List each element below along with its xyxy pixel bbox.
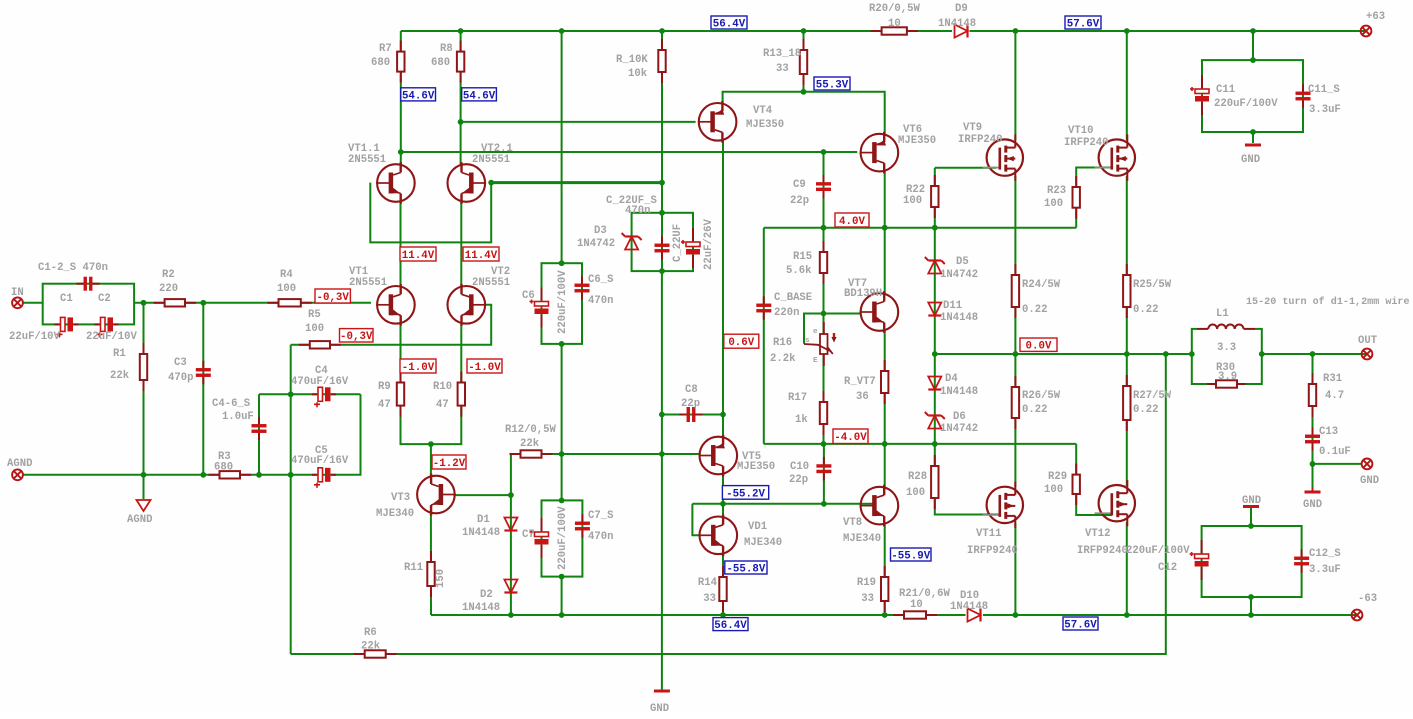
transistor VT3 [417, 474, 456, 516]
svg-text:R9: R9 [378, 381, 391, 393]
svg-text:R11: R11 [404, 562, 423, 574]
svg-text:33: 33 [703, 593, 716, 605]
diode D9 [955, 25, 968, 38]
svg-text:33: 33 [861, 593, 874, 605]
svg-text:VT3: VT3 [391, 492, 410, 504]
svg-text:C12_S: C12_S [1309, 548, 1341, 560]
transistor VT8 [860, 485, 899, 527]
wire R28 chain to VT11 gate [935, 444, 1001, 515]
svg-text:GND: GND [650, 703, 669, 714]
wire VT7 base [824, 313, 862, 315]
transistor VT2 [448, 284, 487, 326]
capacitor C9 [816, 175, 831, 199]
wire VD1 base jog [692, 504, 700, 536]
svg-text:C2: C2 [98, 293, 111, 305]
resistor R19 [881, 566, 888, 612]
svg-text:R5: R5 [308, 309, 321, 321]
svg-text:3.3uF: 3.3uF [1309, 104, 1341, 116]
svg-text:470n: 470n [588, 531, 613, 543]
svg-text:C11_S: C11_S [1308, 84, 1340, 96]
svg-text:R15: R15 [793, 251, 812, 263]
svg-text:470uF/16V: 470uF/16V [291, 376, 349, 388]
svg-text:2N5551: 2N5551 [349, 277, 387, 289]
voltage label -1.2V [432, 455, 466, 470]
connector OUT [1362, 349, 1373, 360]
svg-text:47: 47 [436, 399, 449, 411]
svg-text:56.4V: 56.4V [714, 620, 747, 632]
svg-text:R27/5W: R27/5W [1133, 390, 1172, 402]
svg-text:C10: C10 [790, 461, 809, 473]
wire R8 to VT4 base [461, 121, 696, 123]
resistor R10 [458, 372, 465, 417]
voltage label 56.4V [713, 618, 748, 632]
ground AGND arrow [137, 500, 151, 511]
svg-text:E: E [813, 357, 818, 365]
wire GND spur [1313, 463, 1362, 465]
wire VT8 emitter R19 [884, 523, 886, 615]
voltage label 0.0V [1020, 338, 1057, 353]
resistor R9 [397, 372, 404, 417]
svg-text:22k: 22k [110, 370, 130, 382]
svg-text:220n: 220n [774, 307, 799, 319]
wire C1 C2 box [43, 284, 134, 325]
svg-text:MJE350: MJE350 [737, 461, 775, 473]
capacitor C_BASE [756, 296, 771, 320]
svg-text:AGND: AGND [7, 458, 32, 470]
svg-text:VD1: VD1 [748, 521, 767, 533]
svg-text:OUT: OUT [1358, 335, 1378, 347]
wire C5 branch [291, 394, 361, 475]
wire diode chain upper [934, 228, 936, 354]
wire VT9 gate [935, 167, 997, 169]
svg-text:22p: 22p [681, 398, 700, 410]
svg-text:22uF/26V: 22uF/26V [703, 218, 715, 270]
wire input line [23, 302, 43, 304]
capacitor C4 [312, 387, 336, 407]
voltage label -4.0V [833, 429, 868, 444]
svg-text:0.22: 0.22 [1133, 404, 1158, 416]
svg-text:D4: D4 [945, 373, 958, 385]
svg-text:MJE350: MJE350 [898, 135, 936, 147]
svg-text:C11: C11 [1216, 84, 1235, 96]
svg-text:3.3uF: 3.3uF [1309, 564, 1341, 576]
svg-text:MJE340: MJE340 [376, 508, 414, 520]
wire C_22UF center branch [661, 213, 663, 271]
wire R12 line to VT5 base [511, 453, 701, 455]
transistor VT1 [376, 284, 415, 326]
wire VD1 emitter R14 [722, 553, 724, 615]
svg-text:1N4148: 1N4148 [938, 18, 976, 30]
capacitor C7 [530, 518, 549, 558]
svg-text:R28: R28 [908, 471, 927, 483]
svg-text:GND: GND [1303, 499, 1322, 511]
svg-text:0.22: 0.22 [1133, 304, 1158, 316]
svg-text:5.6k: 5.6k [786, 265, 812, 277]
svg-text:-0,3V: -0,3V [316, 292, 349, 304]
svg-text:1k: 1k [795, 414, 808, 426]
svg-text:11.4V: 11.4V [465, 250, 498, 262]
wire VT12 to rail [1126, 522, 1128, 615]
svg-text:VT11: VT11 [976, 528, 1001, 540]
svg-text:100: 100 [1044, 198, 1063, 210]
svg-text:C6: C6 [522, 290, 535, 302]
svg-text:R25/5W: R25/5W [1133, 279, 1172, 291]
svg-text:680: 680 [371, 57, 390, 69]
capacitor C13 [1305, 427, 1320, 451]
wire VT4 VT6 emitters [723, 92, 885, 135]
wire GND long vertical [661, 271, 663, 690]
svg-text:VT10: VT10 [1068, 125, 1093, 137]
resistor R25 [1123, 264, 1130, 318]
svg-text:VT8: VT8 [843, 517, 862, 529]
wire C4-6_S branch [258, 394, 260, 475]
wire C7 box [542, 500, 583, 576]
wire mid output 0.0V rail [935, 353, 1367, 355]
wire -4.0V bias rail [764, 443, 1076, 445]
wire R9 R10 to VT3 [401, 322, 462, 444]
resistor R26 [1012, 376, 1019, 429]
wire C6 box [542, 263, 583, 344]
wire VT1.1 emitter to VT1 collector [400, 200, 402, 287]
resistor R4 [268, 299, 312, 306]
svg-text:47: 47 [378, 399, 391, 411]
wire C12 box to rail [1250, 597, 1252, 615]
wire center vertical to C6 [561, 31, 563, 263]
svg-text:10: 10 [910, 599, 923, 611]
svg-text:MJE340: MJE340 [843, 533, 881, 545]
voltage label -55.9V [891, 548, 932, 562]
wire VT10 drain [1126, 31, 1128, 140]
svg-text:0.0V: 0.0V [1026, 341, 1052, 353]
resistor R17 [820, 391, 827, 435]
inductor L1 [1197, 325, 1255, 329]
resistor R23 [1073, 176, 1080, 219]
wire R12 left leg [510, 454, 512, 495]
wire C4 branch [259, 393, 361, 395]
svg-text:R6: R6 [364, 627, 377, 639]
wire input to VT1 base [134, 302, 371, 304]
capacitor C4-6_S [252, 417, 267, 441]
svg-text:D5: D5 [956, 256, 969, 268]
wire C11 box [1202, 60, 1303, 132]
ground GND C11 [1245, 144, 1261, 147]
svg-text:22uF/10V: 22uF/10V [86, 331, 138, 343]
voltage label 55.3V [814, 77, 850, 91]
svg-text:100: 100 [277, 283, 296, 295]
svg-text:IRFP9240: IRFP9240 [1077, 545, 1128, 557]
wire VT7 collector [884, 228, 886, 295]
capacitor C2 [95, 317, 119, 337]
resistor R27 [1123, 375, 1130, 431]
svg-text:2N5551: 2N5551 [348, 154, 386, 166]
svg-text:1N4742: 1N4742 [940, 423, 978, 435]
wire VT9 source R24 [1014, 176, 1016, 354]
resistor R14 [719, 566, 726, 612]
svg-text:220uF/100V: 220uF/100V [557, 270, 569, 334]
wire R_10K chain [661, 31, 663, 213]
svg-text:GND: GND [1360, 475, 1379, 487]
wire R22 chain [934, 168, 936, 228]
svg-text:R2: R2 [162, 269, 175, 281]
svg-text:100: 100 [903, 195, 922, 207]
wire VT4 collector down to VT5 [722, 140, 724, 438]
resistor R_10K [658, 39, 665, 83]
svg-text:+63: +63 [1366, 11, 1385, 23]
capacitor C1 [55, 317, 79, 337]
voltage label -0,3V [315, 289, 350, 304]
svg-text:0.22: 0.22 [1022, 304, 1047, 316]
svg-text:-1.2V: -1.2V [433, 458, 466, 470]
svg-text:VT9: VT9 [963, 122, 982, 134]
wire VT11 to rail [1014, 523, 1016, 615]
wire +63 top rail [401, 30, 1366, 32]
wire C8 branch [662, 414, 723, 416]
svg-text:R12/0,5W: R12/0,5W [505, 424, 557, 436]
voltage label 4.0V [835, 213, 869, 228]
wire C_22UF box [632, 213, 693, 271]
svg-text:C9: C9 [793, 179, 806, 191]
svg-text:680: 680 [431, 57, 450, 69]
voltage label -55.2V [722, 486, 768, 501]
svg-text:R26/5W: R26/5W [1022, 390, 1061, 402]
svg-text:220uF/100V: 220uF/100V [1214, 98, 1278, 110]
svg-text:IRFP9240: IRFP9240 [967, 545, 1018, 557]
wire C12 box [1202, 526, 1302, 597]
svg-text:AGND: AGND [127, 514, 152, 526]
svg-text:R23: R23 [1047, 185, 1066, 197]
svg-text:22p: 22p [790, 195, 809, 207]
svg-text:MJE350: MJE350 [746, 119, 784, 131]
wire GND to C12 box [1250, 508, 1252, 526]
svg-text:10: 10 [888, 18, 901, 30]
resistor R7 [397, 41, 404, 83]
svg-text:54.6V: 54.6V [402, 90, 435, 102]
svg-text:R16: R16 [773, 337, 792, 349]
svg-text:220: 220 [159, 283, 178, 295]
svg-text:R13_18: R13_18 [763, 48, 801, 60]
svg-text:-55.9V: -55.9V [891, 550, 930, 562]
svg-text:D6: D6 [953, 411, 966, 423]
voltage label 54.6V [462, 88, 497, 102]
wire VT6 collector [884, 170, 886, 228]
svg-text:100: 100 [906, 487, 925, 499]
resistor R24 [1012, 264, 1019, 318]
svg-text:IRFP240: IRFP240 [958, 134, 1003, 146]
svg-text:C_22UF: C_22UF [672, 224, 684, 262]
svg-text:22uF/10V: 22uF/10V [9, 331, 61, 343]
svg-text:R19: R19 [857, 577, 876, 589]
wire trimmer wiper jog [804, 314, 824, 344]
resistor R13_18 [800, 39, 807, 85]
wire R26 VT11 chain [1014, 354, 1016, 487]
svg-text:36: 36 [856, 391, 869, 403]
voltage label -1.0V [467, 359, 502, 374]
svg-text:D3: D3 [594, 225, 607, 237]
wire bias left vertical with C_BASE [763, 228, 765, 444]
voltage label -0,3V [340, 329, 374, 344]
svg-text:100: 100 [1044, 484, 1063, 496]
svg-text:C8: C8 [685, 384, 698, 396]
resistor R22 [931, 175, 938, 218]
svg-text:0.6V: 0.6V [728, 337, 754, 349]
wire 4.0V bias rail [764, 227, 1076, 229]
wire R11 to rail corner [430, 505, 432, 615]
svg-text:1N4148: 1N4148 [462, 602, 500, 614]
svg-text:1N4148: 1N4148 [950, 601, 988, 613]
resistor R21 [893, 611, 937, 618]
svg-text:R31: R31 [1323, 373, 1342, 385]
diode D10 [968, 609, 981, 622]
svg-text:C6_S: C6_S [588, 274, 614, 286]
capacitor C6 [530, 288, 549, 328]
wire VT7 emitter R_VT7 [884, 330, 886, 444]
capacitor 22uF/26V [681, 228, 700, 268]
voltage label 56.4V [711, 16, 747, 30]
svg-text:-1.0V: -1.0V [468, 362, 501, 374]
svg-text:11.4V: 11.4V [402, 250, 435, 262]
wire L1 box [1192, 329, 1262, 384]
svg-text:C7: C7 [522, 529, 535, 541]
capacitor C10 [816, 457, 831, 481]
svg-text:54.6V: 54.6V [463, 90, 496, 102]
wire C_22UF box entry [661, 183, 663, 213]
svg-text:C13: C13 [1319, 426, 1338, 438]
svg-text:33: 33 [776, 63, 789, 75]
svg-text:680: 680 [214, 462, 233, 474]
wire C7 box to rail [561, 577, 563, 615]
diode D11 [928, 303, 941, 316]
svg-text:1.0uF: 1.0uF [222, 411, 254, 423]
svg-text:22k: 22k [361, 641, 381, 653]
wire C3 branch [202, 303, 204, 475]
resistor R5 [299, 341, 341, 348]
svg-text:e: e [813, 328, 818, 336]
svg-text:55.3V: 55.3V [816, 79, 849, 91]
svg-text:R29: R29 [1048, 471, 1067, 483]
svg-text:C_BASE: C_BASE [774, 292, 812, 304]
svg-text:57.6V: 57.6V [1064, 619, 1097, 631]
wire R5 feedback to VT2 base [291, 305, 492, 345]
zener diode D5 [925, 257, 945, 274]
capacitor C11_S [1296, 84, 1311, 108]
wire VT3 base line [454, 494, 511, 496]
connector IN [12, 297, 23, 308]
svg-text:2N5551: 2N5551 [472, 277, 510, 289]
resistor R11 [427, 551, 434, 597]
wire bottom negative rail [431, 614, 1357, 616]
svg-text:1N4742: 1N4742 [940, 269, 978, 281]
wire AGND stub down [143, 475, 145, 499]
svg-text:3.3: 3.3 [1217, 342, 1236, 354]
wire cascode base loop [370, 183, 491, 243]
wire AGND line [23, 474, 291, 476]
transistor VT4 [698, 101, 737, 143]
ground GND main [654, 690, 670, 691]
svg-text:MJE340: MJE340 [744, 537, 782, 549]
svg-text:R10: R10 [433, 381, 452, 393]
ground GND R31 [1305, 487, 1321, 492]
transistor VT7 [860, 291, 899, 333]
wire cascode base bus [491, 181, 662, 184]
svg-text:D2: D2 [480, 589, 493, 601]
svg-text:56.4V: 56.4V [713, 18, 746, 30]
wire C6 to R12 line to C7 [561, 344, 563, 501]
resistor R28 [931, 455, 938, 509]
svg-text:15-20 turn of d1-1,2mm wire: 15-20 turn of d1-1,2mm wire [1246, 296, 1410, 308]
svg-text:C4-6_S: C4-6_S [212, 398, 251, 410]
wire feedback from output [291, 354, 1166, 654]
wire C11 box to GND [1252, 132, 1254, 143]
svg-text:R14: R14 [698, 577, 718, 589]
svg-text:1N4148: 1N4148 [462, 527, 500, 539]
capacitor C6_S [575, 276, 590, 300]
svg-text:D1: D1 [477, 514, 490, 526]
svg-text:2.2k: 2.2k [770, 353, 796, 365]
transistor VD1 [699, 515, 738, 557]
wire R27 VT12 chain [1126, 354, 1128, 486]
svg-text:0.22: 0.22 [1022, 404, 1047, 416]
svg-text:470n: 470n [625, 205, 650, 217]
svg-text:0.1uF: 0.1uF [1319, 446, 1351, 458]
diode D2 [504, 580, 517, 593]
capacitor C11 [1190, 75, 1209, 115]
wire R15 trimmer R17 chain [823, 228, 825, 444]
resistor R31 [1309, 373, 1316, 417]
svg-text:R4: R4 [280, 269, 293, 281]
svg-text:10k: 10k [628, 68, 648, 80]
wire C9 branch [823, 152, 825, 228]
wire C11 box entry [1252, 31, 1254, 60]
wire VT10 source R25 [1126, 176, 1128, 354]
resistor R20 [871, 27, 918, 34]
connector -63 [1352, 610, 1363, 621]
svg-text:C12: C12 [1158, 562, 1177, 574]
svg-text:100: 100 [305, 323, 324, 335]
svg-text:VT12: VT12 [1085, 528, 1110, 540]
svg-text:220uF/100V: 220uF/100V [557, 506, 569, 570]
connector GND [1362, 459, 1373, 470]
svg-text:C3: C3 [174, 357, 187, 369]
transistor VT1.1 [376, 162, 415, 204]
connector +63 [1361, 26, 1372, 37]
voltage label 54.6V [401, 88, 436, 102]
wire VT2.1 emitter to VT2 collector [460, 200, 462, 287]
wire VT5 node to VT8 base [692, 503, 874, 505]
resistor R_VT7 [881, 360, 888, 404]
svg-text:R17: R17 [788, 392, 807, 404]
resistor R12 [510, 450, 553, 457]
diode D4 [928, 377, 941, 390]
wire VT1.1 collector to VT6 base [401, 151, 857, 153]
svg-text:R7: R7 [379, 43, 392, 55]
svg-text:1N4148: 1N4148 [940, 386, 978, 398]
transistor VT6 [860, 132, 899, 174]
resistor R8 [457, 41, 464, 83]
resistor R30 [1207, 380, 1246, 387]
capacitor C8 [679, 407, 703, 422]
wire VT5 collector node [722, 473, 724, 518]
voltage label 57.6V [1063, 617, 1098, 631]
svg-text:D11: D11 [943, 300, 962, 312]
voltage label 0.6V [724, 334, 759, 349]
voltage label 57.6V [1065, 16, 1101, 30]
diode D1 [504, 518, 517, 531]
transistor VT2.1 [448, 162, 487, 204]
svg-text:4.7: 4.7 [1325, 390, 1344, 402]
svg-text:-55.8V: -55.8V [726, 563, 765, 575]
voltage label -1.0V [400, 359, 436, 374]
svg-text:BD139H: BD139H [844, 288, 882, 300]
